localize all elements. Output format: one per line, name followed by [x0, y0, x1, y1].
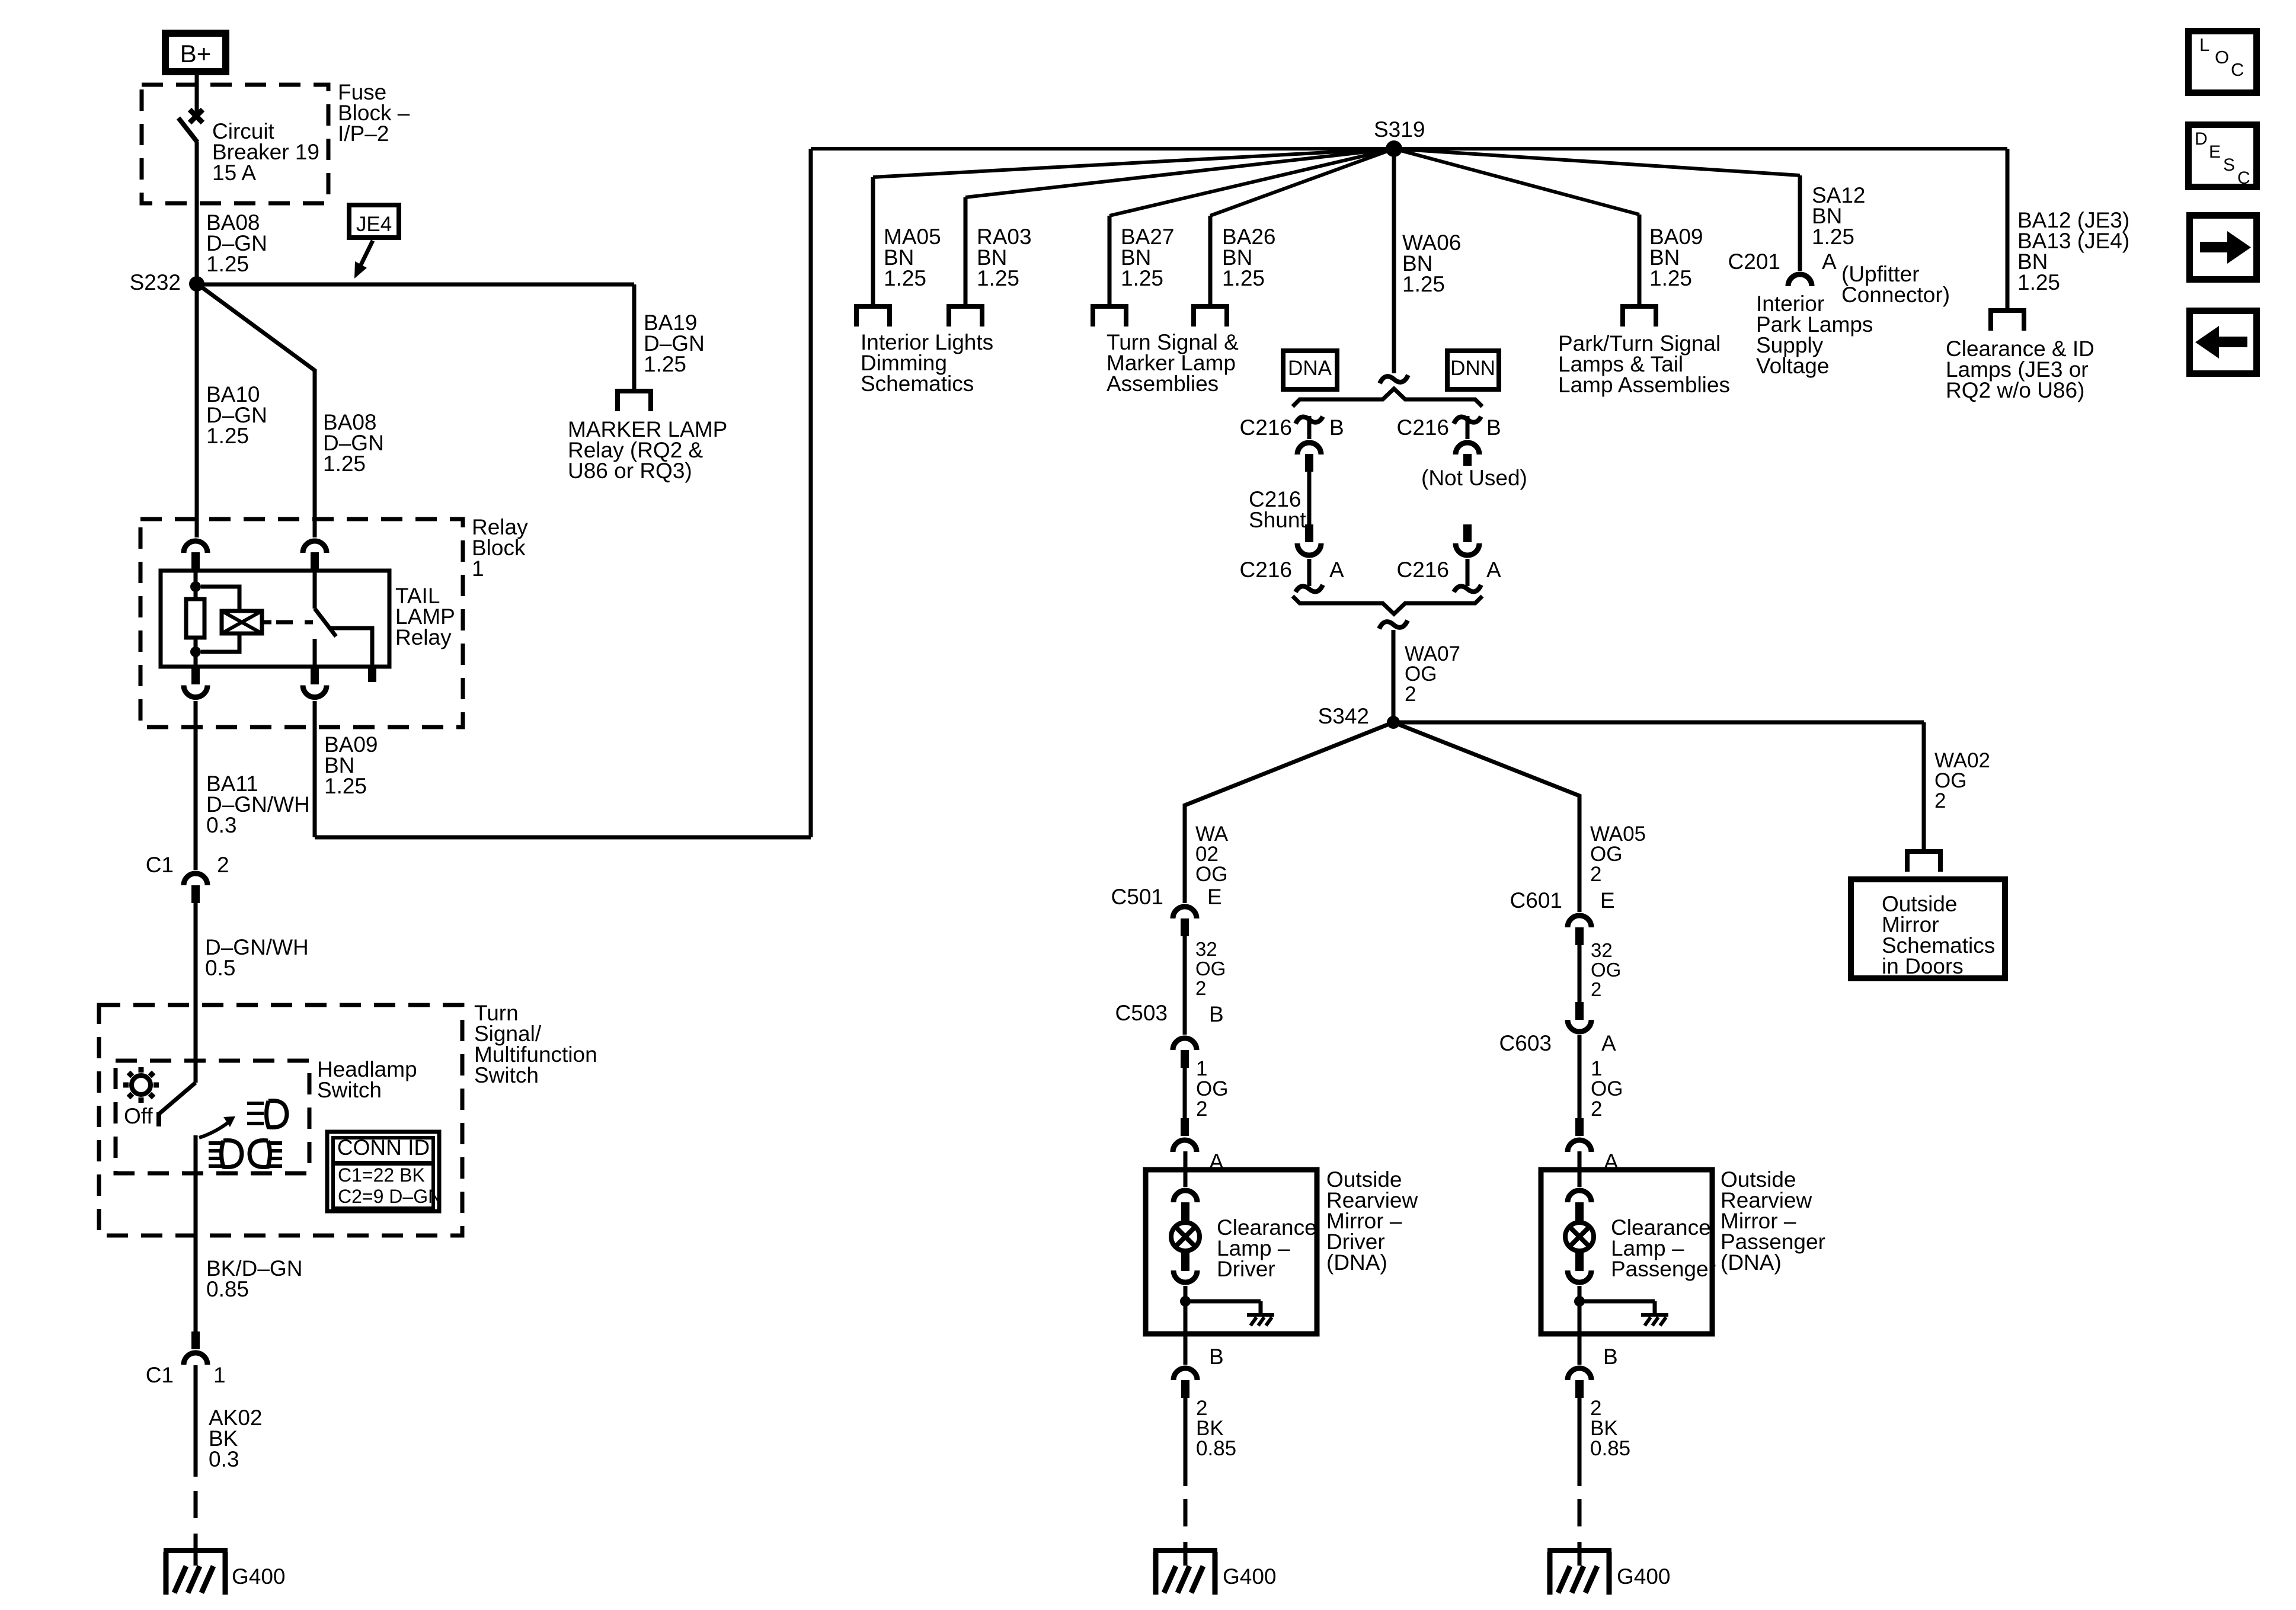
- svg-text:B: B: [1486, 415, 1501, 440]
- svg-text:C1: C1: [146, 1363, 174, 1387]
- svg-text:A: A: [1486, 558, 1501, 582]
- svg-text:1.25: 1.25: [206, 252, 249, 276]
- svg-text:(DNA): (DNA): [1326, 1250, 1387, 1275]
- svg-text:G400: G400: [1223, 1564, 1277, 1589]
- svg-text:(DNA): (DNA): [1721, 1250, 1782, 1275]
- svg-text:1.25: 1.25: [206, 424, 249, 448]
- svg-text:A: A: [1601, 1031, 1616, 1055]
- svg-text:C: C: [2231, 59, 2244, 80]
- svg-text:1.25: 1.25: [1649, 266, 1692, 290]
- svg-text:OG: OG: [1591, 959, 1621, 981]
- svg-text:G400: G400: [232, 1564, 286, 1589]
- svg-text:Off: Off: [124, 1104, 153, 1128]
- svg-text:C503: C503: [1115, 1001, 1168, 1025]
- svg-text:2: 2: [1590, 863, 1601, 886]
- svg-text:B: B: [1603, 1345, 1618, 1369]
- svg-text:RQ2 w/o U86): RQ2 w/o U86): [1946, 378, 2084, 402]
- svg-text:32: 32: [1591, 939, 1613, 961]
- svg-text:1.25: 1.25: [1812, 225, 1854, 249]
- svg-text:(Not Used): (Not Used): [1421, 466, 1527, 490]
- svg-text:Voltage: Voltage: [1756, 354, 1829, 378]
- svg-text:OG: OG: [1195, 863, 1227, 886]
- svg-text:Switch: Switch: [474, 1063, 539, 1087]
- svg-text:DNA: DNA: [1288, 357, 1332, 380]
- svg-text:Relay: Relay: [395, 625, 452, 649]
- svg-text:O: O: [2215, 47, 2229, 68]
- svg-text:1.25: 1.25: [1222, 266, 1265, 290]
- svg-text:0.3: 0.3: [206, 813, 236, 837]
- svg-text:S319: S319: [1374, 117, 1425, 142]
- svg-text:Switch: Switch: [317, 1078, 382, 1102]
- svg-text:E: E: [1600, 888, 1615, 913]
- svg-text:1.25: 1.25: [323, 452, 366, 476]
- svg-text:S232: S232: [130, 270, 181, 295]
- svg-text:Shunt: Shunt: [1249, 508, 1306, 532]
- svg-text:E: E: [2209, 142, 2221, 162]
- svg-text:1.25: 1.25: [324, 774, 367, 798]
- svg-text:B+: B+: [180, 40, 212, 68]
- svg-text:E: E: [1207, 885, 1222, 909]
- svg-text:C2=9 D–GN: C2=9 D–GN: [338, 1186, 442, 1207]
- svg-text:Assemblies: Assemblies: [1107, 372, 1219, 396]
- svg-text:B: B: [1209, 1002, 1224, 1026]
- svg-text:1.25: 1.25: [1121, 266, 1163, 290]
- svg-text:C216: C216: [1397, 558, 1449, 582]
- svg-text:Connector): Connector): [1841, 283, 1950, 307]
- svg-text:G400: G400: [1617, 1564, 1671, 1589]
- svg-text:S342: S342: [1318, 704, 1369, 728]
- svg-text:I/P–2: I/P–2: [338, 121, 389, 146]
- svg-text:2: 2: [1196, 1097, 1207, 1121]
- svg-text:JE4: JE4: [356, 213, 392, 236]
- svg-text:Passenger: Passenger: [1611, 1257, 1716, 1281]
- svg-text:C201: C201: [1728, 249, 1780, 274]
- svg-text:DNN: DNN: [1450, 357, 1495, 380]
- svg-text:2: 2: [1405, 683, 1416, 706]
- svg-text:C216: C216: [1397, 415, 1449, 440]
- svg-text:1: 1: [213, 1363, 226, 1387]
- svg-text:0.3: 0.3: [209, 1447, 239, 1471]
- svg-text:1.25: 1.25: [2017, 270, 2060, 295]
- svg-text:C601: C601: [1510, 888, 1562, 913]
- svg-text:1.25: 1.25: [884, 266, 926, 290]
- svg-text:0.85: 0.85: [1590, 1437, 1630, 1460]
- svg-text:2: 2: [217, 853, 229, 877]
- svg-text:S: S: [2223, 155, 2235, 175]
- svg-text:0.85: 0.85: [206, 1277, 249, 1301]
- svg-text:1.25: 1.25: [1402, 272, 1445, 296]
- svg-text:0.5: 0.5: [205, 956, 235, 980]
- svg-text:in Doors: in Doors: [1882, 954, 1964, 978]
- svg-text:1: 1: [472, 556, 484, 581]
- svg-text:Driver: Driver: [1217, 1257, 1275, 1281]
- svg-text:2: 2: [1591, 1097, 1602, 1121]
- svg-text:2: 2: [1934, 789, 1946, 812]
- svg-text:C216: C216: [1240, 558, 1292, 582]
- svg-text:1.25: 1.25: [977, 266, 1019, 290]
- svg-text:CONN ID: CONN ID: [337, 1135, 430, 1160]
- svg-text:2: 2: [1195, 977, 1206, 999]
- svg-text:2: 2: [1591, 978, 1601, 1000]
- svg-text:Schematics: Schematics: [861, 372, 974, 396]
- svg-text:C1=22 BK: C1=22 BK: [338, 1164, 425, 1186]
- svg-text:C1: C1: [146, 853, 174, 877]
- svg-text:B: B: [1329, 415, 1344, 440]
- svg-text:0.85: 0.85: [1196, 1437, 1236, 1460]
- svg-text:Lamp Assemblies: Lamp Assemblies: [1558, 373, 1730, 397]
- svg-text:L: L: [2199, 34, 2209, 55]
- svg-text:B: B: [1209, 1345, 1224, 1369]
- svg-text:1.25: 1.25: [644, 352, 686, 376]
- svg-text:C: C: [2237, 168, 2250, 188]
- svg-text:32: 32: [1195, 938, 1217, 960]
- svg-text:OG: OG: [1195, 958, 1226, 980]
- svg-text:A: A: [1329, 558, 1344, 582]
- svg-text:C603: C603: [1499, 1031, 1552, 1055]
- svg-text:U86 or RQ3): U86 or RQ3): [568, 459, 692, 483]
- svg-text:C501: C501: [1111, 885, 1163, 909]
- svg-text:A: A: [1822, 249, 1837, 274]
- svg-text:D: D: [2195, 129, 2208, 149]
- svg-text:15 A: 15 A: [212, 161, 256, 185]
- svg-text:C216: C216: [1240, 415, 1292, 440]
